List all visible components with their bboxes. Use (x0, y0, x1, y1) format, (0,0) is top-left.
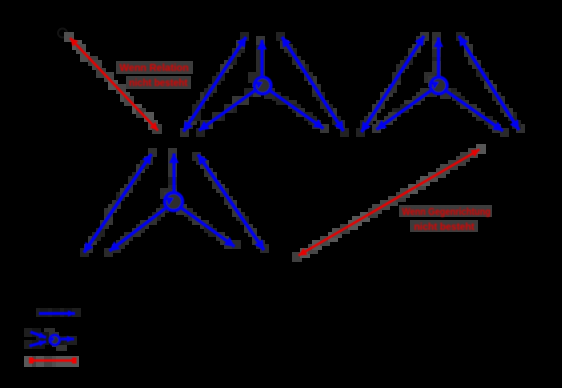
arrow loop2 to E (446, 91, 504, 132)
edge F-C (84, 154, 152, 253)
edge D-B (362, 36, 425, 132)
red label 1 line 2 (129, 78, 188, 89)
arrow loop1 to A (260, 40, 263, 78)
red no-relation G-E (299, 150, 480, 256)
arrow loop1 to C (199, 91, 255, 131)
red label 1 line 1 (120, 63, 189, 74)
loop circle 2 (431, 77, 448, 94)
legend composite arrow out (61, 338, 74, 341)
legend arrow (39, 312, 75, 315)
legend loop circle (50, 335, 60, 345)
red label 2 line 2 (414, 222, 474, 233)
arrow loop3 to F (110, 208, 167, 252)
edge C-A (184, 37, 247, 132)
red label 2 line 1 (402, 207, 491, 218)
edge E-B (459, 36, 519, 130)
legend red line (29, 358, 77, 364)
halo artifacts (24, 32, 525, 367)
arrow loop2 to B (437, 38, 440, 78)
edge G-C (198, 155, 264, 251)
arrow loop1 to D (271, 91, 324, 129)
loop circle 3 (165, 193, 183, 211)
arrow loop3 to G (182, 208, 235, 247)
edge D-A (282, 37, 344, 131)
loop circle 1 (254, 77, 271, 94)
node X faint outline (58, 29, 67, 38)
red no-relation X-C (70, 38, 158, 131)
legend composite arrow upper-left (31, 332, 47, 338)
arrow loop2 to D (377, 91, 432, 130)
arrow loop3 to C (172, 154, 175, 193)
legend composite arrow lower-left (30, 342, 47, 347)
